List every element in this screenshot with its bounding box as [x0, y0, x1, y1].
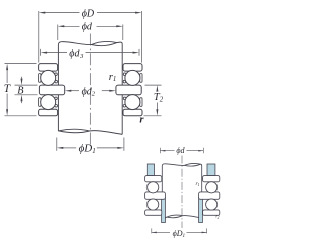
- svg-text:ϕd: ϕd: [82, 22, 93, 33]
- svg-text:B: B: [17, 86, 23, 97]
- svg-text:r2: r2: [215, 214, 219, 220]
- svg-text:ϕD: ϕD: [82, 9, 95, 20]
- svg-text:r1: r1: [196, 181, 200, 187]
- svg-text:r1: r1: [109, 72, 117, 83]
- svg-text:ϕd: ϕd: [176, 146, 185, 155]
- svg-text:T2: T2: [154, 92, 164, 104]
- svg-text:ϕd2: ϕd2: [82, 86, 96, 97]
- svg-text:ϕD1: ϕD1: [79, 142, 96, 155]
- svg-text:T: T: [4, 83, 11, 95]
- svg-text:ϕD1: ϕD1: [173, 229, 186, 239]
